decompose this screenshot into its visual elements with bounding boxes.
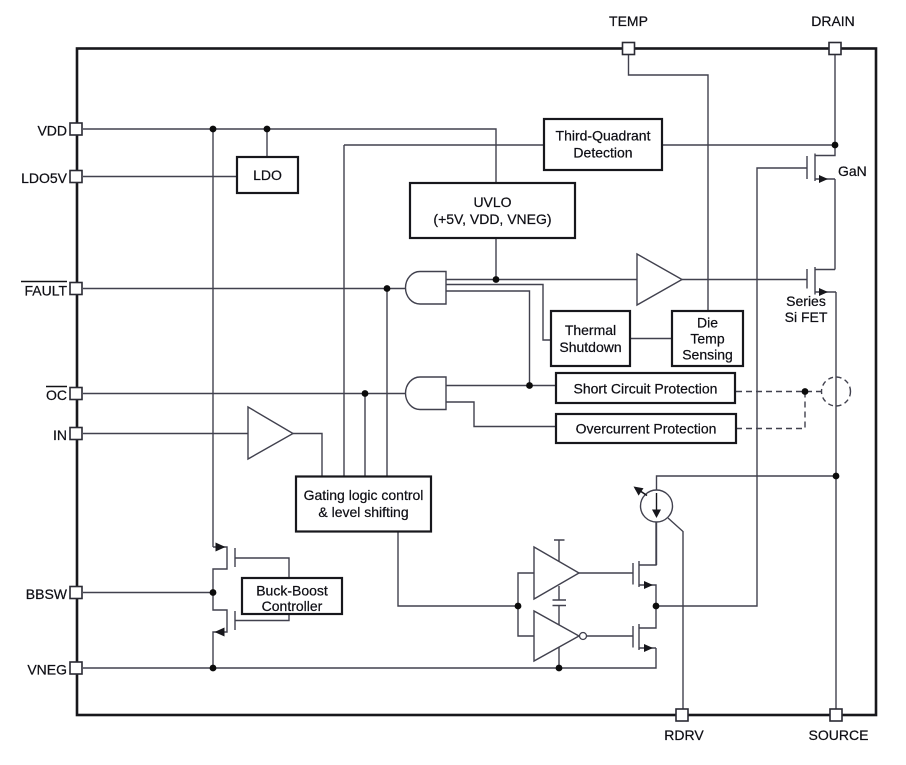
svg-text:Controller: Controller [262,598,323,614]
block Buck-Boost Controller [242,578,342,614]
wire third-quadrant riser [343,145,345,477]
wire U3 output to gating logic [293,434,322,478]
node BBSW [210,589,217,596]
buck-boost FET Q3 (top) [213,547,289,668]
svg-text:Gating logic control: Gating logic control [304,487,424,503]
pin OC [70,388,82,400]
node VNEG buck-boost [210,665,217,672]
block UVLO [410,183,575,238]
functional blocks [237,119,743,614]
inverter bubble T2 [580,633,587,640]
pin IN [70,428,82,440]
wire BBSW [83,592,213,594]
AND gate G1 (FAULT, left facing) [406,272,447,305]
arrow I1 adjust [640,491,648,496]
node LDO tap [264,126,271,133]
node driver input [515,603,522,610]
current sensor dashed circle [822,377,851,406]
svg-text:VDD: VDD [37,123,67,139]
node DRAIN [832,142,839,149]
svg-text:Thermal: Thermal [565,322,616,338]
block Overcurrent Protection [556,414,736,443]
wire driver input bracket [518,573,534,636]
svg-text:Buck-Boost: Buck-Boost [256,583,328,599]
wire FAULT riser [386,289,388,478]
wire gating logic output [398,532,518,606]
arrow Q1 source [819,175,828,183]
op-amp U1 (Si FET gate buffer) [637,254,682,305]
svg-text:Short Circuit Protection: Short Circuit Protection [574,381,718,397]
svg-text:Temp: Temp [690,331,724,347]
arrow Q6 source [644,644,653,652]
svg-text:Shutdown: Shutdown [559,339,621,355]
pin TEMP [623,43,635,55]
node sensor tee [802,388,809,395]
block Die Temp Sensing [672,311,743,366]
wire current source bottom [656,522,658,565]
svg-text:& level shifting: & level shifting [318,504,408,520]
pin BBSW [70,587,82,599]
svg-text:FAULT: FAULT [24,283,67,299]
wire third-quadrant to drain [662,144,835,146]
wire OCP to AND2 [446,402,556,427]
svg-text:BBSW: BBSW [26,586,68,602]
wire U1 output to Si FET gate [682,279,807,281]
wire VDD rail horizontal [83,129,496,183]
svg-text:RDRV: RDRV [664,727,704,743]
capacitor C1 riser bottom [558,606,560,669]
pin squares [70,43,842,722]
GaN FET Q1 [807,146,835,181]
svg-text:UVLO: UVLO [473,194,511,210]
node SCP tee [526,382,533,389]
wire GaN source / Si drain link [834,179,836,270]
wire LDO riser [266,129,268,157]
node VDD-rail [210,126,217,133]
svg-text:OC: OC [46,387,67,403]
wire net U1 input / UVLO / AND1 [446,279,637,281]
wire OC [83,393,407,395]
svg-text:(+5V, VDD, VNEG): (+5V, VDD, VNEG) [433,211,551,227]
wire DRAIN drop [834,55,836,147]
wire T2 output [587,635,634,637]
pin FAULT [70,283,82,295]
pin LDO5V [70,171,82,183]
arrow Q4 source [215,628,225,637]
current source I1 [641,490,673,522]
wire FAULT [83,288,407,290]
wire VDD vertical rail [212,129,214,547]
wire OC riser [364,394,366,478]
arrow Q2 source [819,288,828,296]
AND gate G2 (OC, left facing) [406,377,447,410]
outer IC boundary [77,49,876,716]
node OC tap [362,390,369,397]
svg-text:GaN: GaN [838,163,867,179]
block Third-Quadrant Detection [544,119,662,170]
op-amp T2 (inverting driver buffer) [534,611,579,661]
wire driver midpoint to GaN gate [656,168,807,606]
node FAULT tap [384,285,391,292]
svg-text:Sensing: Sensing [682,347,733,363]
svg-text:Overcurrent Protection: Overcurrent Protection [576,421,717,437]
wire thermal-shutdown to AND1 [446,285,551,341]
pin VNEG [70,662,82,674]
driver FET Q6 (lower) [633,606,656,650]
series Si FET Q2 [807,267,836,295]
wire third-quadrant feed [344,144,544,146]
node driver midpoint [653,603,660,610]
wire SOURCE rail [835,292,837,709]
wire UVLO output riser [495,238,497,280]
svg-text:LDO5V: LDO5V [21,170,68,186]
arrow Q5 source [644,581,653,589]
wire T1 output [579,572,633,574]
arrow Q3 source [216,543,226,552]
svg-text:Si FET: Si FET [785,309,828,325]
svg-text:IN: IN [53,427,67,443]
wire VNEG [83,648,656,668]
block Gating logic control [296,477,431,532]
wire OCP dashed [736,392,805,429]
svg-text:SOURCE: SOURCE [809,727,869,743]
pin SOURCE [830,709,842,721]
svg-text:VNEG: VNEG [27,662,67,678]
node VNEG cap [556,665,563,672]
wire IN [83,433,248,435]
dashed nets [736,392,821,429]
block LDO [237,157,298,193]
pin VDD [70,123,82,135]
node source sense [833,473,840,480]
svg-text:LDO: LDO [253,167,282,183]
wire SCP to AND1 [446,291,530,386]
driver FET Q5 (upper) [633,522,656,606]
wire thermal-shutdown to die-temp-sensing [630,338,672,340]
svg-text:TEMP: TEMP [609,13,648,29]
op-amp T1 (driver buffer) [534,547,579,599]
pin DRAIN [829,43,841,55]
svg-text:Detection: Detection [573,145,632,161]
op-amp U3 (IN buffer) [248,407,293,459]
wire current source to RDRV [668,518,683,709]
wire current source top to SOURCE rail [657,476,837,490]
pin RDRV [676,709,688,721]
block Short Circuit Protection [556,373,735,403]
wire styles [83,55,836,710]
svg-text:Series: Series [786,293,826,309]
block Thermal Shutdown [551,311,630,366]
wire TEMP to die-temp-sensing [629,55,709,312]
wire T1 supply tee [554,540,565,561]
node UVLO output [493,276,500,283]
svg-text:Third-Quadrant: Third-Quadrant [556,128,651,144]
capacitor C1 riser top [558,586,560,600]
wire SCP dashed to sensor [736,391,821,393]
svg-text:Die: Die [697,315,718,331]
wire SCP to AND2 [446,385,556,387]
wire LDO5V [83,176,237,178]
svg-text:DRAIN: DRAIN [811,13,855,29]
capacitor C1 [553,600,567,606]
